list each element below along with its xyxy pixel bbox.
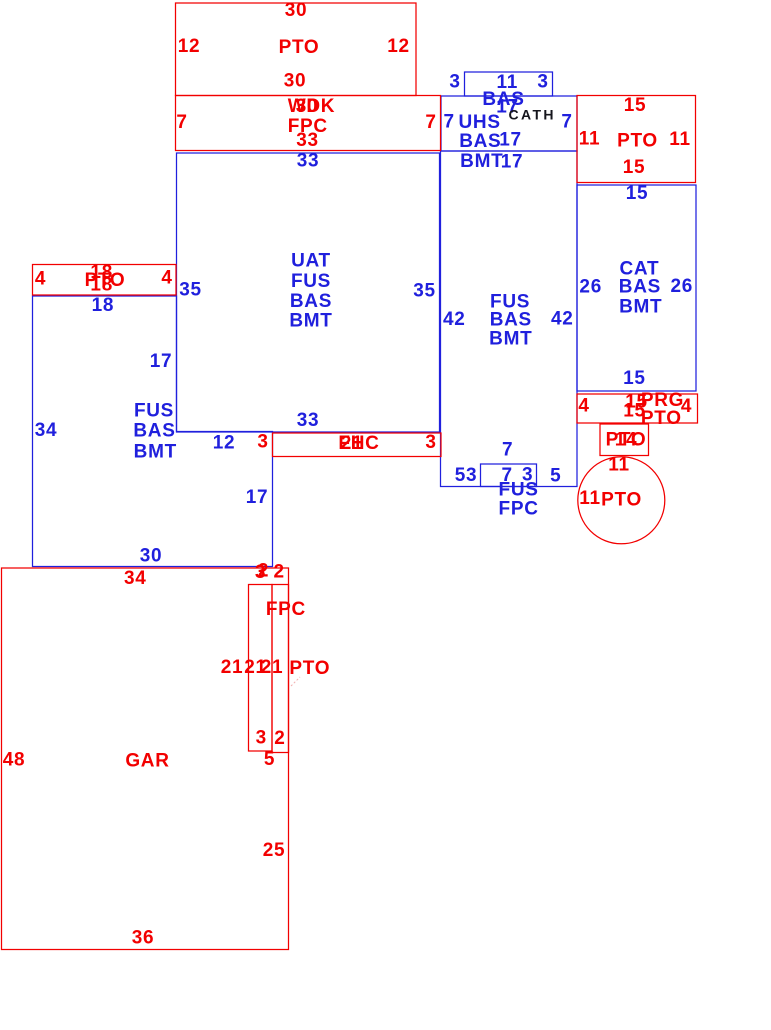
svg-text:BAS: BAS — [619, 277, 661, 298]
svg-text:CATH: CATH — [508, 107, 555, 123]
svg-text:30: 30 — [285, 0, 308, 21]
svg-text:7: 7 — [502, 440, 513, 461]
svg-text:FUS: FUS — [134, 401, 174, 422]
svg-text:3: 3 — [256, 727, 267, 748]
svg-text:UHS: UHS — [458, 112, 500, 133]
svg-text:4: 4 — [161, 268, 172, 289]
svg-text:PTO: PTO — [601, 489, 642, 510]
svg-text:3: 3 — [537, 72, 548, 93]
svg-text:15: 15 — [623, 368, 646, 389]
svg-text:WDK: WDK — [288, 96, 335, 117]
svg-text:42: 42 — [443, 309, 466, 330]
svg-text:7: 7 — [176, 112, 187, 133]
svg-text:30: 30 — [284, 71, 307, 92]
svg-text:3: 3 — [449, 72, 460, 93]
svg-text:GAR: GAR — [125, 751, 169, 772]
svg-text:48: 48 — [3, 750, 26, 771]
svg-text:36: 36 — [132, 928, 155, 949]
svg-text:4: 4 — [681, 396, 692, 417]
svg-text:BMT: BMT — [460, 151, 503, 172]
svg-text:42: 42 — [551, 309, 574, 330]
svg-text:26: 26 — [579, 277, 602, 298]
svg-text:12: 12 — [387, 36, 410, 57]
svg-text:FPC: FPC — [499, 499, 539, 520]
svg-text:FPC: FPC — [266, 599, 306, 620]
svg-text:18: 18 — [92, 295, 115, 316]
svg-text:21: 21 — [261, 657, 284, 678]
svg-text:UAT: UAT — [291, 251, 331, 272]
svg-text:BMT: BMT — [134, 441, 177, 462]
svg-text:7: 7 — [444, 111, 455, 132]
svg-text:30: 30 — [140, 546, 163, 567]
svg-text:BAS: BAS — [459, 131, 501, 152]
svg-text:34: 34 — [124, 568, 147, 589]
svg-text:2: 2 — [274, 728, 285, 749]
svg-text:12: 12 — [178, 36, 201, 57]
svg-text:BAS: BAS — [133, 421, 175, 442]
svg-text:BAS: BAS — [490, 310, 532, 331]
svg-text:5: 5 — [550, 465, 561, 486]
svg-text:FUS: FUS — [291, 271, 331, 292]
svg-text:PTO: PTO — [617, 131, 658, 152]
svg-text:14: 14 — [615, 430, 638, 451]
svg-text:53: 53 — [455, 465, 478, 486]
svg-text:12: 12 — [213, 433, 236, 454]
svg-text:35: 35 — [413, 281, 436, 302]
svg-text:33: 33 — [296, 130, 319, 151]
svg-text:4: 4 — [578, 396, 589, 417]
svg-text:11: 11 — [579, 488, 601, 509]
svg-text:5: 5 — [264, 749, 275, 770]
svg-text:15: 15 — [623, 157, 646, 178]
svg-text:26: 26 — [671, 276, 694, 297]
svg-text:PTO: PTO — [289, 658, 330, 679]
svg-text:7: 7 — [561, 112, 572, 133]
svg-text:PTO: PTO — [279, 37, 320, 58]
svg-text:PTO: PTO — [641, 408, 682, 429]
svg-text:17: 17 — [499, 130, 522, 151]
svg-text:18: 18 — [90, 275, 113, 296]
svg-text:BMT: BMT — [619, 297, 662, 318]
svg-text:17: 17 — [501, 152, 524, 173]
svg-text:33: 33 — [297, 151, 320, 172]
svg-text:3: 3 — [257, 432, 268, 453]
svg-text:FUS: FUS — [499, 480, 539, 501]
svg-text:FHC: FHC — [338, 433, 379, 454]
svg-text:7: 7 — [425, 112, 436, 133]
svg-text:34: 34 — [35, 420, 58, 441]
svg-text:33: 33 — [297, 410, 320, 431]
svg-text:2: 2 — [258, 561, 269, 582]
svg-text:11: 11 — [608, 454, 630, 475]
svg-text:17: 17 — [150, 351, 173, 372]
svg-text:3: 3 — [425, 432, 436, 453]
svg-text:35: 35 — [179, 280, 202, 301]
svg-text:17: 17 — [246, 487, 269, 508]
svg-text:BAS: BAS — [290, 291, 332, 312]
svg-text:25: 25 — [263, 840, 286, 861]
svg-text:21: 21 — [221, 657, 244, 678]
svg-text:4: 4 — [35, 268, 46, 289]
svg-text:BMT: BMT — [489, 328, 532, 349]
svg-text:11: 11 — [669, 129, 691, 150]
svg-text:15: 15 — [626, 183, 649, 204]
svg-text:2: 2 — [274, 562, 285, 583]
svg-text:BMT: BMT — [289, 311, 332, 332]
svg-text:15: 15 — [624, 95, 647, 116]
svg-text:11: 11 — [579, 129, 601, 150]
